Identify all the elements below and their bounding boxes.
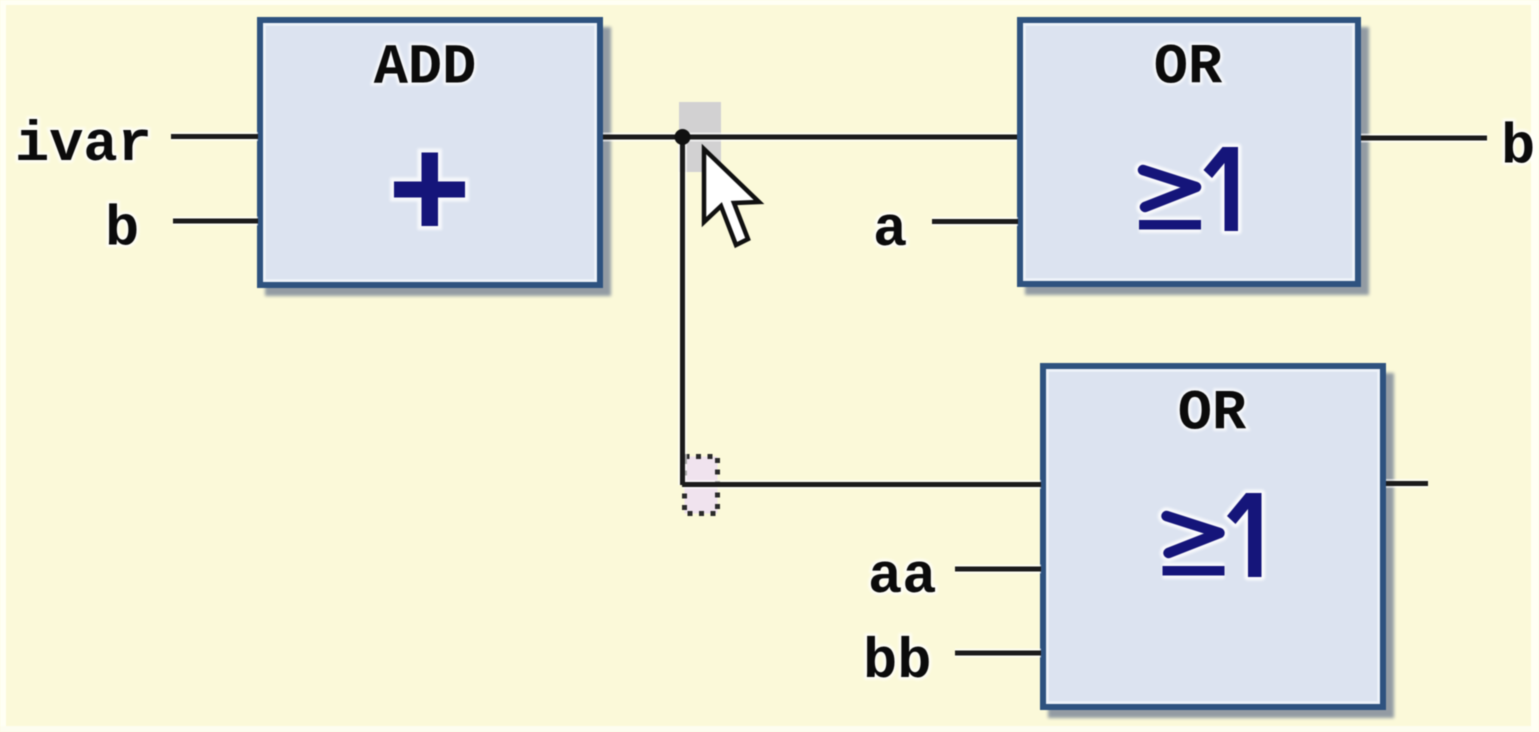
wire bb input — [955, 651, 1041, 656]
svg-text:bb: bb — [863, 631, 931, 695]
block OR2 inner highlight — [1048, 371, 1379, 703]
wire horizontal branch to OR2 — [683, 482, 1042, 487]
white right edge strip — [1531, 0, 1539, 732]
block OR1 border — [1017, 17, 1361, 287]
pink dotted connection handle at corner — [685, 457, 718, 514]
svg-text:OR: OR — [1154, 37, 1223, 101]
block ADD body — [263, 23, 597, 282]
junction dot — [675, 129, 691, 145]
block OR2 border — [1040, 363, 1386, 710]
wire vertical branch — [680, 137, 685, 485]
wire ivar input — [171, 134, 258, 139]
GE-1 symbol of OR1 — [1139, 147, 1238, 231]
svg-text:a: a — [873, 199, 907, 263]
svg-text:b: b — [1501, 117, 1535, 181]
svg-text:b: b — [105, 199, 139, 263]
block ADD border — [257, 17, 603, 288]
shadow of block OR2 — [1048, 373, 1394, 718]
block OR1 inner highlight — [1025, 25, 1354, 280]
white top edge strip — [0, 0, 1539, 5]
GE-1 symbol of OR2 — [1163, 493, 1262, 577]
wire a input — [932, 219, 1018, 224]
block OR1 body — [1023, 23, 1355, 281]
wire aa input — [955, 567, 1041, 572]
wire b input — [173, 219, 258, 224]
block OR2 body — [1046, 369, 1380, 704]
shadow of block ADD — [265, 27, 611, 296]
svg-text:ADD: ADD — [374, 37, 477, 101]
block ADD inner highlight — [265, 25, 596, 281]
wire halo group — [171, 137, 1487, 654]
svg-text:ivar: ivar — [15, 114, 152, 178]
white left edge strip — [0, 0, 6, 732]
svg-text:aa: aa — [868, 546, 936, 610]
svg-text:OR: OR — [1178, 383, 1247, 447]
wire ADD output to OR1 input — [603, 135, 1017, 140]
wire OR2 output — [1386, 481, 1428, 486]
white bottom edge strip — [0, 726, 1539, 732]
shadow of block OR1 — [1025, 27, 1369, 295]
grey connection handle at junction — [679, 102, 721, 172]
wire OR1 output — [1361, 136, 1487, 141]
mouse cursor — [704, 149, 759, 245]
plus symbol of ADD — [390, 149, 469, 231]
